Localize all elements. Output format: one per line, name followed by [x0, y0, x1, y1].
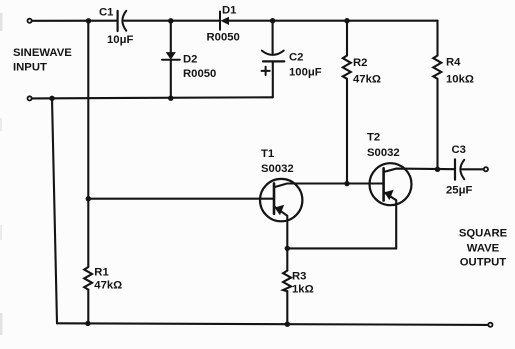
svg-text:C2: C2: [289, 52, 303, 64]
svg-text:OUTPUT: OUTPUT: [460, 256, 507, 268]
svg-text:10kΩ: 10kΩ: [446, 74, 474, 86]
svg-text:47kΩ: 47kΩ: [353, 74, 381, 86]
svg-text:25μF: 25μF: [446, 185, 472, 197]
svg-text:R2: R2: [353, 57, 367, 69]
svg-text:10μF: 10μF: [107, 34, 133, 46]
svg-text:R0050: R0050: [207, 32, 240, 44]
svg-text:R3: R3: [292, 270, 306, 282]
svg-text:R1: R1: [94, 266, 108, 278]
svg-text:R4: R4: [446, 57, 461, 69]
svg-text:SQUARE: SQUARE: [459, 227, 508, 239]
svg-text:1kΩ: 1kΩ: [292, 283, 314, 295]
svg-text:47kΩ: 47kΩ: [94, 280, 122, 292]
svg-text:WAVE: WAVE: [467, 242, 500, 254]
svg-text:SINEWAVE: SINEWAVE: [13, 47, 72, 59]
svg-text:C3: C3: [452, 144, 466, 156]
svg-text:S0032: S0032: [367, 147, 400, 159]
svg-text:100μF: 100μF: [289, 67, 322, 79]
svg-text:D1: D1: [222, 5, 236, 17]
svg-text:C1: C1: [99, 7, 113, 19]
svg-text:INPUT: INPUT: [13, 62, 47, 74]
svg-text:D2: D2: [183, 54, 197, 66]
svg-text:T2: T2: [367, 132, 380, 144]
svg-text:S0032: S0032: [261, 163, 294, 175]
svg-text:T1: T1: [261, 148, 274, 160]
svg-text:R0050: R0050: [183, 68, 216, 80]
